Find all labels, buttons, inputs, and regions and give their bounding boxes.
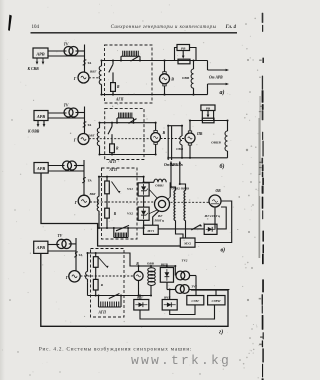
svg-text:В: В (170, 77, 174, 82)
svg-text:АРВ: АРВ (36, 166, 45, 171)
svg-text:РВ: РВ (181, 46, 186, 50)
svg-text:ОВВ: ОВВ (176, 147, 184, 151)
svg-text:МУ1: МУ1 (146, 229, 154, 233)
svg-text:ОВГ: ОВГ (88, 134, 95, 138)
svg-text:ОВВ2 ОВВЗ: ОВВ2 ОВВЗ (172, 186, 190, 190)
svg-text:ВБГ: ВБГ (89, 69, 97, 73)
svg-text:www.trk.kg: www.trk.kg (131, 353, 231, 368)
svg-text:Г: Г (65, 275, 69, 280)
svg-text:TV: TV (64, 42, 69, 46)
svg-text:TV1: TV1 (191, 284, 197, 288)
svg-text:500Гц: 500Гц (155, 218, 164, 222)
svg-text:104: 104 (32, 25, 40, 30)
svg-text:От АРВ: От АРВ (209, 76, 223, 80)
svg-text:ТА: ТА (87, 61, 92, 65)
svg-text:ОВПВ: ОВПВ (211, 141, 221, 145)
svg-text:ВГ: ВГ (157, 214, 163, 218)
svg-text:VS2: VS2 (127, 212, 133, 216)
svg-text:СУВГ: СУВГ (192, 299, 200, 303)
svg-text:МУ2: МУ2 (183, 242, 191, 246)
svg-text:ВБГ: ВБГ (89, 192, 97, 196)
svg-text:TV: TV (58, 234, 63, 238)
svg-text:TV2: TV2 (182, 259, 188, 263)
svg-text:РВ: РВ (206, 106, 211, 110)
svg-text:От АРВ: От АРВ (170, 163, 184, 167)
svg-text:АРВ: АРВ (36, 245, 45, 250)
svg-text:АГП: АГП (98, 311, 107, 315)
svg-text:АГП: АГП (109, 168, 118, 172)
svg-text:Г: Г (73, 76, 77, 81)
svg-text:АРВ: АРВ (35, 51, 44, 56)
svg-text:ПВ: ПВ (196, 132, 203, 136)
svg-text:АГП: АГП (115, 98, 124, 102)
svg-text:б): б) (220, 163, 225, 170)
svg-text:ТА: ТА (87, 123, 92, 127)
svg-text:ВЧГ: ВЧГ (163, 296, 170, 300)
svg-text:СУВЧГ: СУВЧГ (212, 300, 222, 303)
svg-text:Рис. 4.2. Системы возбуждения: Рис. 4.2. Системы возбуждения синхронных… (39, 346, 192, 353)
svg-text:В: В (162, 131, 166, 135)
svg-text:Г: Г (74, 200, 78, 205)
svg-text:Гл. 4: Гл. 4 (225, 25, 237, 30)
svg-text:г): г) (219, 328, 223, 335)
svg-text:К СВВ: К СВВ (27, 67, 40, 71)
svg-text:TV: TV (64, 104, 69, 108)
svg-text:Г: Г (73, 137, 77, 142)
svg-text:VS1: VS1 (127, 187, 133, 191)
svg-text:АГП: АГП (108, 160, 117, 164)
svg-text:ОВВ1: ОВВ1 (155, 184, 164, 188)
svg-text:ОВ: ОВ (215, 189, 221, 193)
svg-text:ИГ400Гц: ИГ400Гц (204, 214, 221, 218)
svg-text:К ОВВ: К ОВВ (27, 130, 40, 134)
svg-text:а): а) (220, 89, 225, 96)
svg-text:ТА: ТА (88, 179, 93, 183)
svg-text:Синхронные генераторы и компен: Синхронные генераторы и компенсаторы (111, 25, 217, 30)
svg-text:в): в) (221, 246, 226, 253)
svg-text:АРВ: АРВ (36, 114, 45, 119)
